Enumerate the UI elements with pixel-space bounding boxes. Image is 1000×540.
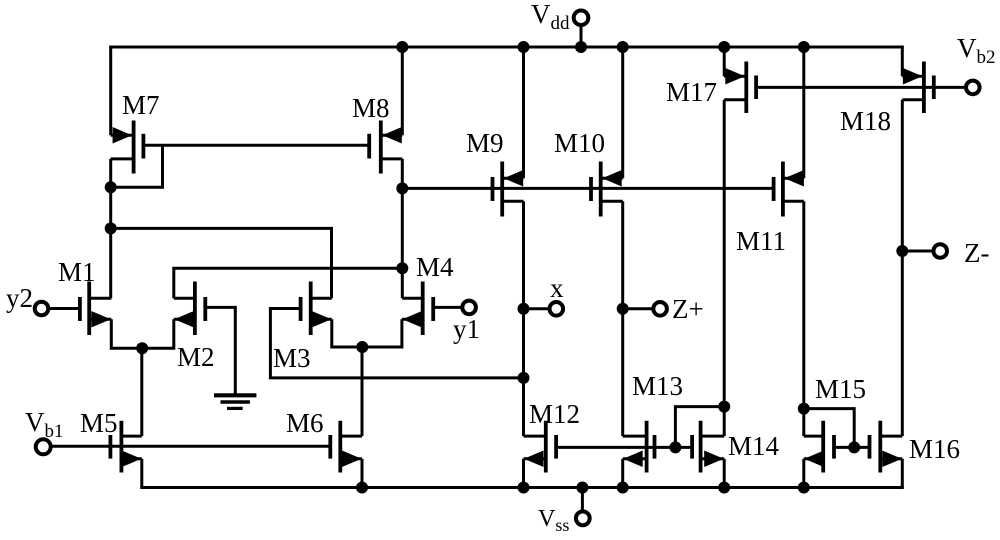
svg-text:M11: M11 <box>736 226 786 256</box>
wire: M17 drain rail down to M14 <box>723 100 726 436</box>
junction: Z+ node <box>617 303 629 315</box>
wire: M14 gate-drain tie <box>675 407 724 448</box>
junction: bottom rail at M14 <box>718 482 730 494</box>
junction: Z- node <box>896 245 908 257</box>
junction: M14 gate tap <box>669 441 681 453</box>
junction: x node <box>518 303 530 315</box>
junction: x rail gate tap <box>518 372 530 384</box>
junction: M4 drain node <box>396 262 408 274</box>
svg-text:M4: M4 <box>416 252 454 282</box>
transistor M2 <box>174 282 206 336</box>
wire: M8 source to vdd <box>401 47 404 135</box>
transistor M9 <box>493 162 524 217</box>
wire: M17 source to vdd rail <box>723 47 726 76</box>
wire: M7 gate-drain tie <box>111 145 163 187</box>
junction: bottom rail at v_ss <box>576 482 588 494</box>
svg-text:Z+: Z+ <box>672 294 704 324</box>
transistor M8 <box>369 121 402 174</box>
svg-text:M3: M3 <box>273 343 311 373</box>
wire: M1 source to tail node <box>111 319 142 348</box>
svg-text:M1: M1 <box>58 257 96 287</box>
transistor M18 <box>902 62 934 114</box>
wire: M15-M16 gate line <box>834 446 870 449</box>
transistor M3 <box>301 282 332 336</box>
junction: M8 drain gate tap <box>396 182 408 194</box>
terminal Z- <box>902 244 947 258</box>
wire: M1 drain to M3 drain <box>111 228 332 298</box>
wire: M4 source to tail node <box>362 319 402 347</box>
junction: vdd rail at M11 <box>798 41 810 53</box>
junction: vdd rail at supply stub <box>575 41 587 53</box>
terminal Z+ <box>623 302 667 316</box>
terminal x <box>524 302 564 316</box>
svg-text:y2: y2 <box>6 283 33 313</box>
wire: left rail upper (vdd to M7 source) <box>109 47 112 135</box>
junction: M3/M4 tail node <box>356 341 368 353</box>
wire: M15 source to bottom rail <box>802 459 805 488</box>
junction: bottom rail at M12 <box>518 482 530 494</box>
transistor M15 <box>804 421 834 473</box>
wire: M7-M8 gate line <box>143 144 369 147</box>
junction: M14 drain tap <box>718 401 730 413</box>
transistor M7 <box>111 121 144 174</box>
wire: vdd top rail <box>109 46 904 49</box>
junction: M7 drain/gate node <box>105 181 117 193</box>
svg-text:M6: M6 <box>286 408 324 438</box>
junction: M15 gate tap <box>848 441 860 453</box>
junction: M15 drain tap <box>798 403 810 415</box>
wire: bottom rail (v_ss) <box>140 486 904 489</box>
transistor M14 <box>692 421 724 473</box>
transistor M17 <box>724 62 756 114</box>
wire: M8 drain rail down to M4 <box>401 159 404 298</box>
svg-text:M13: M13 <box>632 371 683 401</box>
junction: left rail to M3 wire <box>105 222 117 234</box>
wire: M13 source to bottom rail <box>621 459 624 488</box>
terminal v_ss <box>576 488 590 526</box>
wire: M9 source to vdd rail <box>522 47 525 178</box>
svg-text:M7: M7 <box>122 90 160 120</box>
wire: M6 source to bottom rail <box>361 459 364 488</box>
junction: bottom rail at M15 <box>798 482 810 494</box>
wire: M16 source to bottom rail <box>901 459 904 488</box>
wire: M12 source to bottom rail <box>522 459 525 488</box>
wire: tail node down to M5 drain <box>140 348 143 436</box>
transistor M13 <box>623 421 655 473</box>
ground symbol <box>214 395 256 408</box>
wire: right rail (M18 drain down to M16) <box>901 100 904 436</box>
wire: M9-M11 gate line from M8 drain <box>402 187 773 190</box>
wire: M17-M18 gate line to Vb2 <box>756 86 966 89</box>
transistor M11 <box>774 162 804 217</box>
junction: bottom rail at M13 <box>617 482 629 494</box>
transistor M5 <box>110 421 141 473</box>
transistor M12 <box>524 421 557 473</box>
svg-text:M17: M17 <box>666 77 717 107</box>
wire: M12-M14 gate line <box>556 446 692 449</box>
transistor M6 <box>330 421 362 473</box>
svg-text:M2: M2 <box>177 342 215 372</box>
transistor M4 <box>402 282 433 336</box>
svg-text:M18: M18 <box>840 106 891 136</box>
terminal v_dd <box>574 10 589 47</box>
wire: M4 drain stub <box>402 297 422 300</box>
svg-text:M9: M9 <box>466 128 504 158</box>
wire: M14 source to bottom rail <box>723 459 726 488</box>
transistor M10 <box>591 162 623 217</box>
transistor M1 <box>80 282 111 336</box>
wire: tail node down to M6 drain <box>361 347 364 436</box>
wire: M11 source to vdd rail <box>802 47 805 178</box>
svg-text:M8: M8 <box>352 93 390 123</box>
junction: vdd rail at M10 <box>617 41 629 53</box>
svg-text:x: x <box>550 273 564 303</box>
svg-text:y1: y1 <box>453 314 480 344</box>
wire: x rail (M9 drain down to M12) <box>522 201 525 436</box>
terminal y1 <box>433 301 476 315</box>
wire: M2 drain to M4 drain node <box>174 268 402 298</box>
terminal V_b1 <box>36 439 51 454</box>
svg-text:M10: M10 <box>554 128 605 158</box>
wire: M15 gate-drain tie <box>804 409 854 448</box>
svg-text:M16: M16 <box>909 434 960 464</box>
junction: vdd rail at M17 <box>718 41 730 53</box>
wire: M11 drain rail down to M15 <box>802 201 805 436</box>
junction: M1/M2 tail node <box>136 342 148 354</box>
terminal V_b2 <box>966 81 980 95</box>
wire: M3 gate to x rail <box>270 309 523 378</box>
svg-text:M15: M15 <box>815 374 866 404</box>
transistor M16 <box>870 421 903 473</box>
svg-text:M5: M5 <box>80 408 118 438</box>
wire: M10 source to vdd rail <box>621 47 624 178</box>
wire: M2 gate to ground <box>205 307 235 395</box>
wire: vdd rail corner to M18 source <box>901 47 904 76</box>
svg-text:M12: M12 <box>529 399 580 429</box>
svg-text:M14: M14 <box>728 431 780 461</box>
wire: M3 source to tail node <box>332 319 363 347</box>
wire: left rail lower (M7 drain to M1 drain) <box>109 159 112 298</box>
junction: bottom rail at M6 <box>356 482 368 494</box>
wire: Z+ rail (M10 drain down to M13) <box>621 201 624 436</box>
wire: M2 source to tail node <box>142 319 174 348</box>
junction: vdd rail at M8 <box>396 41 408 53</box>
wire: Vb1 gate line to M5/M6 <box>51 445 330 448</box>
wire: M5 source to bottom rail <box>140 459 143 488</box>
terminal y2 <box>35 302 80 316</box>
svg-text:Z-: Z- <box>964 238 989 268</box>
junction: vdd rail at M9 <box>518 41 530 53</box>
